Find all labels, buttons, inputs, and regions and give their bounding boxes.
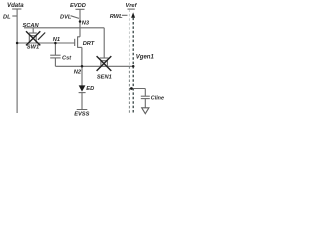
- svg-text:EVDD: EVDD: [70, 3, 86, 9]
- node dot DL/row: [16, 42, 19, 45]
- svg-text:Vgen1: Vgen1: [136, 54, 155, 60]
- wire branch to Cline: [129, 89, 145, 97]
- svg-text:SW1: SW1: [27, 44, 39, 50]
- transistor SW1: [29, 28, 37, 43]
- power rail EVDD: [76, 9, 85, 37]
- wire row N1 (SW1 to DRT gate): [17, 42, 75, 44]
- data line DL (Vdata rail): [12, 9, 21, 113]
- svg-text:N1: N1: [53, 37, 60, 43]
- supply rail EVSS: [77, 109, 88, 111]
- arrowhead to Vref: [131, 12, 135, 17]
- node row2/sense junction: [132, 65, 135, 68]
- svg-text:SEN1: SEN1: [97, 74, 112, 80]
- capacitor Cline: [141, 96, 150, 108]
- X over SEN1: [97, 56, 112, 71]
- leader DVL: [71, 16, 80, 19]
- svg-text:N2: N2: [74, 69, 82, 75]
- transistor DRT: [75, 36, 82, 66]
- capacitor Cst: [50, 43, 60, 66]
- svg-text:Cst: Cst: [62, 56, 72, 62]
- svg-text:EVSS: EVSS: [74, 112, 89, 118]
- OLED diode ED: [79, 66, 86, 109]
- transistor SEN1: [100, 58, 109, 66]
- wire SCAN line: [24, 28, 104, 58]
- X over SW1: [26, 31, 40, 45]
- wire row N2: [55, 65, 133, 67]
- svg-text:ED: ED: [86, 86, 94, 92]
- svg-text:Vref: Vref: [126, 3, 138, 9]
- node N1: [54, 42, 57, 45]
- Vref rail tick: [128, 8, 135, 10]
- leader DL: [12, 15, 16, 17]
- svg-text:RWL: RWL: [110, 14, 123, 20]
- svg-text:N3: N3: [82, 20, 90, 26]
- diagonal mark right of SW1: [38, 33, 45, 40]
- svg-text:DL: DL: [3, 15, 11, 21]
- svg-text:Vdata: Vdata: [7, 2, 24, 9]
- ground: [142, 108, 149, 114]
- svg-text:SCAN: SCAN: [23, 23, 40, 29]
- Vgen1 line (dark dashed): [132, 18, 134, 114]
- sense line (light dashed): [128, 10, 130, 67]
- svg-text:DVL: DVL: [60, 15, 72, 21]
- svg-text:DRT: DRT: [83, 41, 95, 47]
- node N3: [79, 20, 82, 23]
- svg-text:Cline: Cline: [151, 96, 164, 102]
- node sense/Cline junction: [130, 87, 133, 90]
- node N2: [81, 65, 84, 68]
- leader RWL: [122, 14, 128, 16]
